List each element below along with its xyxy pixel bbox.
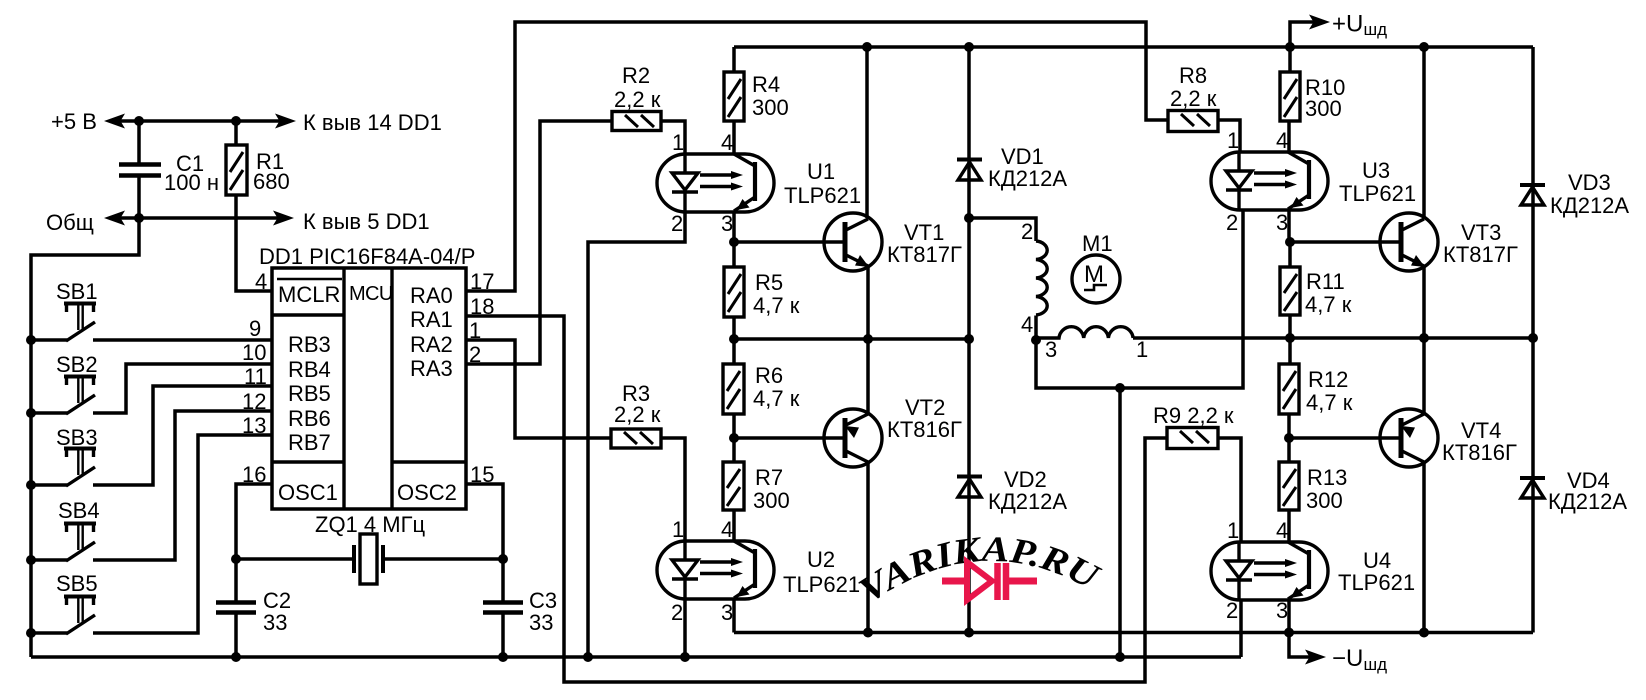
wire VT1 collector [865,47,869,218]
wire VT1 emitter [866,266,870,339]
wire VT3 emitter [1422,266,1426,338]
resistor R10 [1280,47,1345,121]
svg-text:3: 3 [1276,598,1288,623]
wire OSC2 to crystal [466,484,503,559]
svg-text:300: 300 [1306,488,1343,513]
diode VD4 [1520,468,1627,514]
svg-text:OSC1: OSC1 [278,480,338,505]
wire R4 to U1 pin4 [732,121,736,154]
wire R10 to U3 pin4 [1287,121,1291,152]
svg-text:2,2 к: 2,2 к [614,87,661,112]
wire net RA0 pin17 to top rail to R8 [466,22,1168,291]
svg-text:КД212А: КД212А [988,489,1067,514]
label К выв 5 DD1 [303,209,430,234]
node +U rail dots [862,42,1429,52]
svg-text:R5: R5 [755,270,783,295]
svg-text:RA2: RA2 [410,332,453,357]
resistor R5 [724,242,800,339]
button SB3 [31,386,272,486]
resistor R8 [1168,63,1218,132]
svg-text:2: 2 [671,600,683,625]
svg-text:3: 3 [1276,210,1288,235]
capacitor C3 [483,559,557,657]
wire winding A bottom to center tap [1031,316,1041,346]
wire U2 pin2 to rail [683,599,687,657]
pin 1 label [469,318,481,343]
svg-text:RB3: RB3 [288,332,331,357]
svg-text:+5 В: +5 В [51,109,97,134]
svg-text:шд: шд [1364,20,1388,39]
svg-text:4,7 к: 4,7 к [1306,390,1353,415]
svg-text:300: 300 [752,95,789,120]
svg-text:R9 2,2 к: R9 2,2 к [1153,403,1234,428]
pin 11 label [244,364,267,389]
node rail dots SB [26,335,36,638]
wire U4 pin2 to ground rail [1239,600,1243,657]
pin 13 label [242,413,266,438]
svg-text:1: 1 [672,517,684,542]
svg-text:R4: R4 [752,72,780,97]
svg-text:2: 2 [671,211,683,236]
svg-text:R7: R7 [755,465,783,490]
svg-text:КТ816Г: КТ816Г [887,417,962,442]
svg-text:10: 10 [242,340,266,365]
svg-text:1: 1 [672,130,684,155]
wire VT2 collector [866,462,870,633]
svg-text:R11: R11 [1306,269,1345,294]
wire Общ horizontal [104,211,294,226]
pin 16 label [242,462,266,487]
svg-text:M1: M1 [1082,231,1113,256]
button SB4 [31,411,272,561]
resistor R11 [1280,242,1352,338]
pin 2 label [469,342,481,367]
resistor R13 [1279,438,1347,542]
svg-text:Общ: Общ [46,210,94,235]
capacitor C2 [216,559,291,657]
pin 10 label [242,340,266,365]
MCU DD1 box [259,244,475,509]
svg-text:RA3: RA3 [410,356,453,381]
optocoupler U2 [657,517,860,625]
pin 9 label [249,316,261,341]
wire phase B line [1133,333,1538,343]
svg-text:R6: R6 [755,363,783,388]
svg-text:2: 2 [1226,598,1238,623]
transistor VT3 [1380,213,1518,271]
svg-text:3: 3 [1045,337,1057,362]
power +Uшд tap [1290,11,1387,48]
svg-text:U2: U2 [807,547,835,572]
svg-text:КД212А: КД212А [1550,193,1629,218]
svg-text:4,7 к: 4,7 к [1305,292,1352,317]
wire U2 pin3 to -U rail [732,599,736,633]
node bottom rail dots [231,652,1125,662]
watermark logo VARIKAP.RU [852,529,1107,611]
wire R3 to U2 pin1 [661,438,685,541]
svg-text:1: 1 [1227,128,1239,153]
svg-text:U1: U1 [807,159,835,184]
svg-text:SB2: SB2 [56,352,98,377]
svg-text:RA0: RA0 [410,283,453,308]
wire +5V horizontal [104,114,296,129]
node +5V junction dots [134,116,241,126]
svg-text:3: 3 [721,600,733,625]
pin 4 label [255,269,267,294]
resistor R12 [1279,338,1353,438]
wire phase A line [729,334,974,344]
wire VT4 base [1289,436,1401,440]
svg-text:К выв 5 DD1: К выв 5 DD1 [303,209,430,234]
node VD midpoint dots [964,213,974,223]
svg-text:OSC2: OSC2 [397,480,457,505]
svg-text:RB7: RB7 [288,430,331,455]
svg-text:RB5: RB5 [288,381,331,406]
svg-text:4: 4 [1021,312,1033,337]
label К выв 14 DD1 [303,110,442,135]
crystal ZQ1 [236,512,503,584]
wire ground bottom rail [31,655,1241,659]
transistor VT4 [1380,409,1517,467]
wire center tap to ground + U3 pin2 [1036,210,1243,657]
svg-text:−U: −U [1332,645,1363,672]
svg-text:TLP621: TLP621 [783,572,860,597]
wire -U supply rail [734,631,1533,635]
pin 17 label [470,269,494,294]
wire U4 pin3 to -U rail [1287,600,1291,633]
resistor R7 [723,438,790,541]
svg-text:4: 4 [1276,128,1288,153]
svg-text:К выв 14 DD1: К выв 14 DD1 [303,110,442,135]
button SB5 [31,435,272,634]
resistor R1 [226,121,290,291]
svg-text:КТ817Г: КТ817Г [1443,242,1518,267]
motor M1 symbol [1072,231,1120,303]
svg-text:2: 2 [1226,210,1238,235]
wire +U supply rail [734,45,1533,49]
svg-text:RA1: RA1 [410,307,453,332]
diode VD2 [957,467,1067,514]
label +5 В [51,109,97,134]
svg-text:SB4: SB4 [58,498,100,523]
pin 15 label [470,462,494,487]
svg-text:КД212А: КД212А [1548,489,1627,514]
node VT2 base node [729,433,739,443]
wire winding A top [969,218,1036,241]
svg-text:R8: R8 [1179,63,1207,88]
power -Uшд tap [1289,633,1387,675]
svg-text:SB3: SB3 [56,425,98,450]
svg-text:4: 4 [721,130,733,155]
wire VT4 collector [1422,462,1426,633]
svg-text:MCLR: MCLR [278,282,340,307]
wire R2 to U1 pin1 [661,121,685,154]
svg-text:100 н: 100 н [164,170,219,195]
svg-text:4: 4 [255,269,267,294]
svg-text:U3: U3 [1362,158,1390,183]
wire R8 to U3 pin1 [1218,120,1240,152]
svg-text:MCU: MCU [349,283,393,305]
wire VT2 emitter [866,339,870,414]
svg-text:КТ816Г: КТ816Г [1442,440,1517,465]
wire OSC1 to crystal [236,484,272,559]
svg-text:33: 33 [263,610,287,635]
svg-text:TLP621: TLP621 [1338,570,1415,595]
resistor R6 [723,339,800,438]
wire U1 pin3 to base node [729,212,739,247]
button SB2 [31,352,272,414]
capacitor C1 [119,121,219,218]
svg-text:300: 300 [753,488,790,513]
pin 18 label [470,294,494,319]
svg-text:TLP621: TLP621 [784,183,861,208]
wire VT2 base [734,436,845,440]
svg-text:4,7 к: 4,7 к [753,386,800,411]
svg-text:TLP621: TLP621 [1339,181,1416,206]
svg-text:4: 4 [1276,518,1288,543]
node Общ junction [134,213,144,223]
svg-text:+U: +U [1332,11,1363,38]
wire VT3 collector [1422,47,1426,218]
pin 12 label [242,389,266,414]
svg-text:9: 9 [249,316,261,341]
wire U3 pin3 to base node [1285,210,1295,247]
wire R9 to U4 pin1 [1218,438,1241,542]
svg-text:680: 680 [253,169,290,194]
svg-text:1: 1 [1227,518,1239,543]
resistor R2 [612,63,661,131]
label Общ [46,210,94,235]
node VT4 base node [1284,433,1294,443]
resistor R3 [611,381,661,448]
wire net RA1 pin18 long route to R9 [466,316,1167,682]
wire net RA2 pin1 to R3 [466,340,611,438]
transistor VT1 [824,213,962,271]
svg-text:300: 300 [1305,96,1342,121]
wire Общ rail left [31,218,139,657]
svg-text:4,7 к: 4,7 к [753,293,800,318]
node -U rail dots [863,628,1429,638]
svg-text:VD3: VD3 [1568,170,1611,195]
svg-text:КД212А: КД212А [988,166,1067,191]
svg-text:SB5: SB5 [56,571,98,596]
wire VT1 base [734,240,845,244]
svg-text:R13: R13 [1307,465,1347,490]
wire VT4 emitter [1422,338,1426,414]
svg-text:2: 2 [1021,219,1033,244]
svg-text:RB6: RB6 [288,406,331,431]
svg-text:2,2 к: 2,2 к [1170,86,1217,111]
motor winding A [1021,219,1047,337]
svg-text:SB1: SB1 [56,279,98,304]
svg-text:2,2 к: 2,2 к [614,402,661,427]
optocoupler U3 [1211,128,1416,235]
diode VD3 [1520,47,1629,633]
node crystal junctions [231,554,508,564]
transistor VT2 [824,395,962,467]
resistor R4 [724,47,789,121]
svg-text:1: 1 [1136,337,1148,362]
resistor R9 [1153,403,1234,449]
wire VT3 base [1290,240,1401,244]
svg-text:КТ817Г: КТ817Г [887,242,962,267]
wire U1 pin2 return [588,212,685,657]
svg-text:33: 33 [529,610,553,635]
svg-text:R2: R2 [622,63,650,88]
svg-text:DD1 PIC16F84A-04/P: DD1 PIC16F84A-04/P [259,244,475,269]
motor winding B [1036,327,1148,362]
svg-text:шд: шд [1364,655,1388,674]
button SB1 [31,279,272,341]
svg-text:4: 4 [721,517,733,542]
svg-text:R12: R12 [1308,367,1348,392]
svg-text:3: 3 [721,211,733,236]
diode VD1 [957,47,1067,633]
optocoupler U4 [1211,518,1415,623]
svg-text:RB4: RB4 [288,357,331,382]
optocoupler U1 [657,130,861,236]
wire net RA3 pin2 to R2 [466,121,612,364]
